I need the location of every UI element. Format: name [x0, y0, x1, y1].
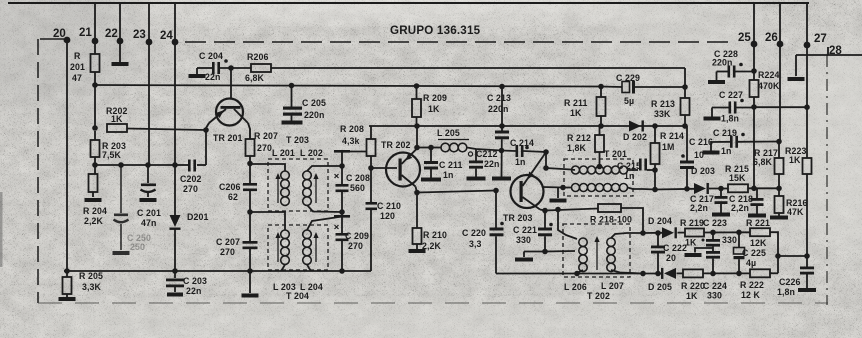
svg-text:220n: 220n	[488, 104, 508, 114]
transistor TR202	[381, 140, 420, 187]
inductor T201 primary	[571, 166, 638, 174]
svg-text:T 202: T 202	[587, 291, 610, 301]
bottom rail y271	[64, 270, 371, 272]
wire	[249, 156, 251, 183]
svg-text:R 222: R 222	[740, 280, 764, 290]
svg-text:R206: R206	[247, 52, 268, 62]
wire L206 bottom lead	[577, 270, 583, 274]
svg-text:62: 62	[228, 192, 238, 202]
svg-text:20: 20	[666, 253, 676, 263]
ground	[189, 68, 206, 78]
svg-text:C 219: C 219	[713, 128, 737, 138]
dashed enclosure left	[37, 39, 39, 303]
svg-text:220n: 220n	[304, 110, 324, 120]
crossbar	[334, 150, 350, 153]
svg-text:3,3: 3,3	[469, 239, 482, 249]
wire	[770, 272, 778, 274]
ground	[242, 294, 259, 298]
node	[499, 123, 505, 129]
svg-text:L 201: L 201	[272, 148, 295, 158]
wire	[341, 192, 343, 233]
svg-text:C 225: C 225	[742, 248, 766, 258]
wire	[341, 241, 343, 271]
diode D203	[691, 166, 715, 194]
svg-text:GRUPO 136.315: GRUPO 136.315	[390, 24, 481, 37]
svg-text:1n: 1n	[515, 157, 525, 167]
wire	[643, 232, 662, 234]
wire	[543, 152, 546, 157]
svg-text:2,2K: 2,2K	[84, 216, 104, 226]
svg-text:R 211: R 211	[564, 98, 588, 108]
ground	[770, 216, 788, 220]
diode D204	[648, 216, 677, 238]
wire	[502, 150, 516, 153]
wire	[119, 3, 121, 62]
wire	[94, 131, 96, 140]
svg-text:C 207: C 207	[216, 237, 240, 247]
svg-text:2,2n: 2,2n	[690, 203, 708, 213]
node	[145, 162, 151, 168]
node	[682, 123, 688, 129]
svg-text:4,3k: 4,3k	[342, 136, 360, 146]
node	[655, 271, 661, 277]
node	[414, 123, 420, 129]
ground	[748, 214, 766, 218]
capacitor C204	[199, 51, 228, 82]
wire	[806, 3, 808, 158]
resistor R220	[681, 269, 705, 301]
resistor R203	[91, 140, 126, 160]
ground	[515, 258, 533, 262]
node	[640, 230, 646, 236]
node	[247, 209, 253, 215]
svg-text:1n: 1n	[721, 146, 731, 156]
node	[92, 162, 98, 168]
wire	[712, 247, 714, 251]
node	[775, 253, 781, 259]
bottom row left	[496, 273, 661, 275]
terminal 22	[105, 28, 123, 44]
svg-text:R 214: R 214	[660, 131, 684, 141]
wire	[540, 210, 545, 211]
svg-text:24: 24	[160, 30, 173, 42]
node	[64, 268, 70, 274]
svg-text:C 208: C 208	[346, 173, 370, 183]
capacitor C229	[601, 73, 685, 106]
node	[652, 167, 658, 173]
svg-text:27: 27	[814, 33, 827, 45]
capacitor C223	[702, 218, 737, 247]
wire	[778, 255, 807, 257]
svg-text:270: 270	[220, 247, 235, 257]
wire	[684, 68, 686, 87]
svg-text:C 214: C 214	[510, 138, 534, 148]
resistor R221	[746, 218, 770, 248]
resistor R219	[680, 218, 704, 248]
node	[776, 139, 782, 145]
svg-text:22n: 22n	[205, 72, 220, 82]
ground	[112, 62, 129, 66]
photo edge artifact	[0, 192, 3, 267]
svg-text:47: 47	[72, 73, 82, 83]
svg-text:R: R	[74, 51, 81, 61]
svg-text:C 201: C 201	[137, 208, 161, 218]
capacitor C222	[651, 233, 687, 274]
resistor R202	[106, 106, 127, 132]
svg-text:22n: 22n	[484, 159, 499, 169]
wire	[94, 72, 96, 128]
node	[804, 253, 810, 259]
wire	[748, 187, 779, 189]
node	[414, 83, 420, 89]
ground	[492, 177, 511, 181]
wire L207 bottom lead	[611, 270, 643, 274]
svg-text:C 210: C 210	[377, 201, 401, 211]
capacitor C208	[335, 173, 370, 193]
transistor TR201	[209, 99, 248, 144]
svg-text:C 221: C 221	[513, 225, 537, 235]
svg-text:R 213: R 213	[651, 99, 675, 109]
node	[718, 186, 724, 192]
wire	[370, 156, 372, 202]
svg-text:1n: 1n	[443, 170, 453, 180]
wire	[754, 106, 807, 108]
svg-text:C 222: C 222	[663, 243, 687, 253]
resistor R218	[590, 204, 634, 225]
svg-text:C 204: C 204	[199, 51, 223, 61]
svg-text:33K: 33K	[654, 109, 671, 119]
node	[710, 271, 716, 277]
svg-text:270: 270	[257, 143, 272, 153]
svg-text:12K: 12K	[750, 238, 767, 248]
title	[390, 24, 481, 37]
resistor R224	[750, 70, 780, 107]
svg-text:3,3K: 3,3K	[82, 282, 102, 292]
wire	[66, 40, 68, 271]
capacitor C216	[680, 126, 713, 189]
svg-text:C 215: C 215	[617, 161, 641, 171]
terminal 21	[79, 27, 98, 44]
svg-text:R 210: R 210	[423, 230, 447, 240]
wire	[545, 250, 575, 253]
dashed enclosure right	[826, 55, 828, 305]
capacitor C219	[703, 128, 780, 156]
svg-text:1K: 1K	[428, 104, 440, 114]
svg-text:R 205: R 205	[79, 271, 103, 281]
arrow	[594, 236, 599, 270]
wire	[220, 67, 251, 69]
wire	[249, 191, 251, 241]
node	[428, 145, 434, 151]
arrow	[313, 232, 318, 262]
resistor R213	[651, 87, 690, 126]
svg-text:T 204: T 204	[286, 291, 309, 301]
node TR203 emitter	[542, 208, 548, 214]
svg-text:C 229: C 229	[616, 73, 640, 83]
node	[339, 163, 345, 169]
svg-text:12 K: 12 K	[741, 290, 761, 300]
svg-text:D 203: D 203	[691, 166, 715, 176]
svg-text:1M: 1M	[662, 142, 674, 152]
svg-text:C 223: C 223	[703, 218, 727, 228]
node	[172, 268, 178, 274]
terminal 23	[133, 29, 152, 45]
resistor R222	[740, 269, 770, 300]
node	[751, 186, 757, 192]
capacitor C213	[487, 87, 511, 177]
node center tap	[597, 164, 603, 170]
resistor R212	[567, 126, 604, 166]
capacitor C205	[283, 86, 326, 121]
resistor R201	[70, 51, 100, 83]
resistor R216	[775, 188, 808, 217]
svg-text:C 205: C 205	[302, 98, 326, 108]
wire	[174, 3, 176, 215]
svg-text:C212: C212	[476, 149, 497, 159]
svg-text:C 211: C 211	[439, 160, 463, 170]
svg-text:D 202: D 202	[623, 132, 647, 142]
resistor R215	[725, 164, 749, 192]
node	[543, 149, 549, 155]
resistor R205	[63, 271, 103, 294]
svg-text:1K: 1K	[686, 291, 698, 301]
resistor R206	[245, 52, 271, 83]
wire	[545, 209, 598, 211]
ground	[788, 77, 805, 81]
ground	[137, 198, 161, 228]
svg-text:470K: 470K	[758, 81, 780, 91]
svg-text:47K: 47K	[787, 207, 804, 217]
svg-text:220n: 220n	[712, 58, 732, 68]
svg-text:D 205: D 205	[648, 282, 672, 292]
wire	[795, 55, 797, 76]
svg-text:7,5K: 7,5K	[102, 150, 122, 160]
svg-text:1K: 1K	[111, 114, 123, 124]
capacitor C206	[219, 182, 257, 202]
node	[710, 230, 716, 236]
terminal 20	[53, 28, 70, 43]
svg-text:1K: 1K	[789, 155, 801, 165]
svg-text:C 213: C 213	[487, 93, 511, 103]
resistor R214	[651, 126, 684, 190]
ground	[467, 177, 486, 181]
inductor T201 secondary	[563, 184, 643, 192]
svg-text:22n: 22n	[186, 286, 201, 296]
svg-text:R 220: R 220	[681, 281, 705, 291]
wire	[524, 251, 545, 253]
svg-text:2,2n: 2,2n	[731, 203, 749, 213]
rail y68	[271, 67, 685, 69]
node C220 tap	[493, 188, 499, 194]
wire to L203	[250, 212, 285, 230]
node	[560, 185, 566, 191]
diode D205	[648, 268, 676, 292]
transformer T203 box	[268, 135, 328, 211]
node	[555, 207, 561, 213]
wire L202 top	[307, 166, 342, 171]
capacitor C211	[424, 148, 463, 181]
svg-text:1n: 1n	[624, 171, 634, 181]
svg-text:R 207: R 207	[254, 131, 278, 141]
ground	[59, 294, 76, 301]
svg-text:6,8K: 6,8K	[245, 73, 265, 83]
node	[339, 209, 345, 215]
arrow	[313, 173, 318, 203]
diode D201	[169, 212, 208, 230]
wire	[127, 129, 206, 131]
svg-text:R224: R224	[758, 70, 779, 80]
trimmer mark	[468, 152, 472, 156]
capacitor C215	[617, 159, 647, 182]
node	[499, 84, 505, 90]
capacitor C209	[335, 225, 369, 251]
resistor R217	[753, 142, 784, 189]
node	[652, 187, 658, 193]
resistor R208	[340, 124, 376, 156]
wire to L201	[250, 164, 285, 171]
svg-text:26: 26	[765, 32, 778, 44]
node	[499, 148, 505, 154]
wire	[621, 208, 643, 233]
dashed enclosure top	[185, 41, 733, 43]
svg-text:560: 560	[350, 183, 365, 193]
resistor R211	[564, 87, 606, 127]
svg-text:C 209: C 209	[345, 231, 369, 241]
wire	[753, 3, 755, 71]
svg-text:250: 250	[130, 242, 145, 252]
svg-text:201: 201	[70, 62, 85, 72]
wire	[148, 3, 150, 165]
svg-text:C226: C226	[779, 277, 800, 287]
wire	[543, 186, 563, 189]
wire	[370, 126, 372, 139]
svg-text:23: 23	[133, 29, 146, 41]
resistor R204	[83, 174, 107, 226]
terminal 25	[738, 32, 757, 47]
wire	[524, 151, 547, 152]
svg-text:1K: 1K	[570, 108, 582, 118]
node	[736, 271, 742, 277]
resistor R207	[246, 131, 278, 156]
wire	[248, 123, 250, 139]
resistor R209	[412, 86, 447, 126]
node	[247, 268, 253, 274]
wire	[703, 272, 750, 274]
node	[543, 165, 549, 171]
svg-text:L 206: L 206	[564, 282, 587, 292]
ground	[550, 199, 567, 203]
wire	[249, 249, 251, 293]
diode D202	[623, 120, 647, 142]
capacitor C250	[113, 165, 130, 255]
ground	[409, 249, 426, 253]
wire	[370, 210, 372, 271]
inductor L205	[431, 128, 469, 152]
terminal 24	[160, 30, 178, 45]
svg-text:R 204: R 204	[83, 206, 107, 216]
node	[228, 65, 234, 71]
node	[736, 230, 742, 236]
node	[804, 104, 810, 110]
node TR202 emitter	[414, 190, 420, 196]
node	[172, 162, 178, 168]
svg-text:1,8n: 1,8n	[721, 114, 739, 124]
capacitor C207	[216, 237, 258, 257]
svg-text:R 219: R 219	[680, 218, 704, 228]
svg-text:C 224: C 224	[703, 281, 727, 291]
wire	[94, 165, 96, 174]
svg-text:C 203: C 203	[183, 276, 207, 286]
inductor L203	[273, 230, 296, 292]
svg-text:330: 330	[707, 291, 722, 301]
wire	[677, 272, 684, 274]
svg-text:4µ: 4µ	[746, 258, 756, 268]
svg-text:5µ: 5µ	[624, 96, 634, 106]
transformer T201 box	[564, 149, 633, 196]
svg-text:6,8K: 6,8K	[753, 157, 773, 167]
svg-text:1,8n: 1,8n	[777, 287, 795, 297]
node R208 base node	[368, 165, 374, 171]
capacitor C218	[729, 188, 764, 213]
rail y165	[95, 164, 176, 166]
capacitor C228	[708, 49, 754, 84]
wire	[557, 188, 559, 199]
svg-text:330: 330	[516, 235, 531, 245]
label T202	[587, 291, 610, 301]
wire	[206, 123, 209, 130]
top border line	[8, 2, 809, 4]
wire L207 top lead	[611, 233, 643, 238]
label T204	[286, 291, 309, 301]
ground	[712, 213, 730, 217]
capacitor C202	[176, 160, 206, 195]
wire	[779, 3, 781, 142]
arrow	[275, 173, 280, 203]
terminal 27	[804, 33, 827, 48]
wire L203 bottom	[281, 265, 285, 272]
wire L204 top	[307, 217, 342, 231]
wire	[341, 152, 343, 184]
transistor TR203	[503, 157, 544, 224]
wire	[349, 151, 366, 153]
ground	[167, 293, 183, 297]
svg-text:15K: 15K	[729, 173, 746, 183]
wire	[205, 130, 207, 165]
node	[247, 161, 253, 167]
ghost label C250	[127, 233, 151, 252]
wire	[174, 229, 176, 271]
capacitor C203	[166, 271, 207, 296]
ground	[798, 288, 816, 292]
wire	[545, 152, 547, 168]
ground	[282, 121, 303, 125]
node	[751, 104, 757, 110]
node	[339, 268, 345, 274]
svg-text:C 216: C 216	[689, 137, 713, 147]
wire	[416, 187, 418, 193]
wire	[197, 67, 212, 69]
transformer T204 box	[268, 225, 328, 270]
node rail85 start	[92, 82, 98, 88]
capacitor C226	[777, 256, 814, 297]
svg-text:C 220: C 220	[462, 228, 486, 238]
svg-text:C202: C202	[180, 174, 201, 184]
node	[682, 84, 688, 90]
wire	[546, 168, 571, 170]
capacitor C227	[704, 90, 755, 124]
svg-text:C206: C206	[219, 182, 240, 192]
wire	[523, 252, 525, 258]
